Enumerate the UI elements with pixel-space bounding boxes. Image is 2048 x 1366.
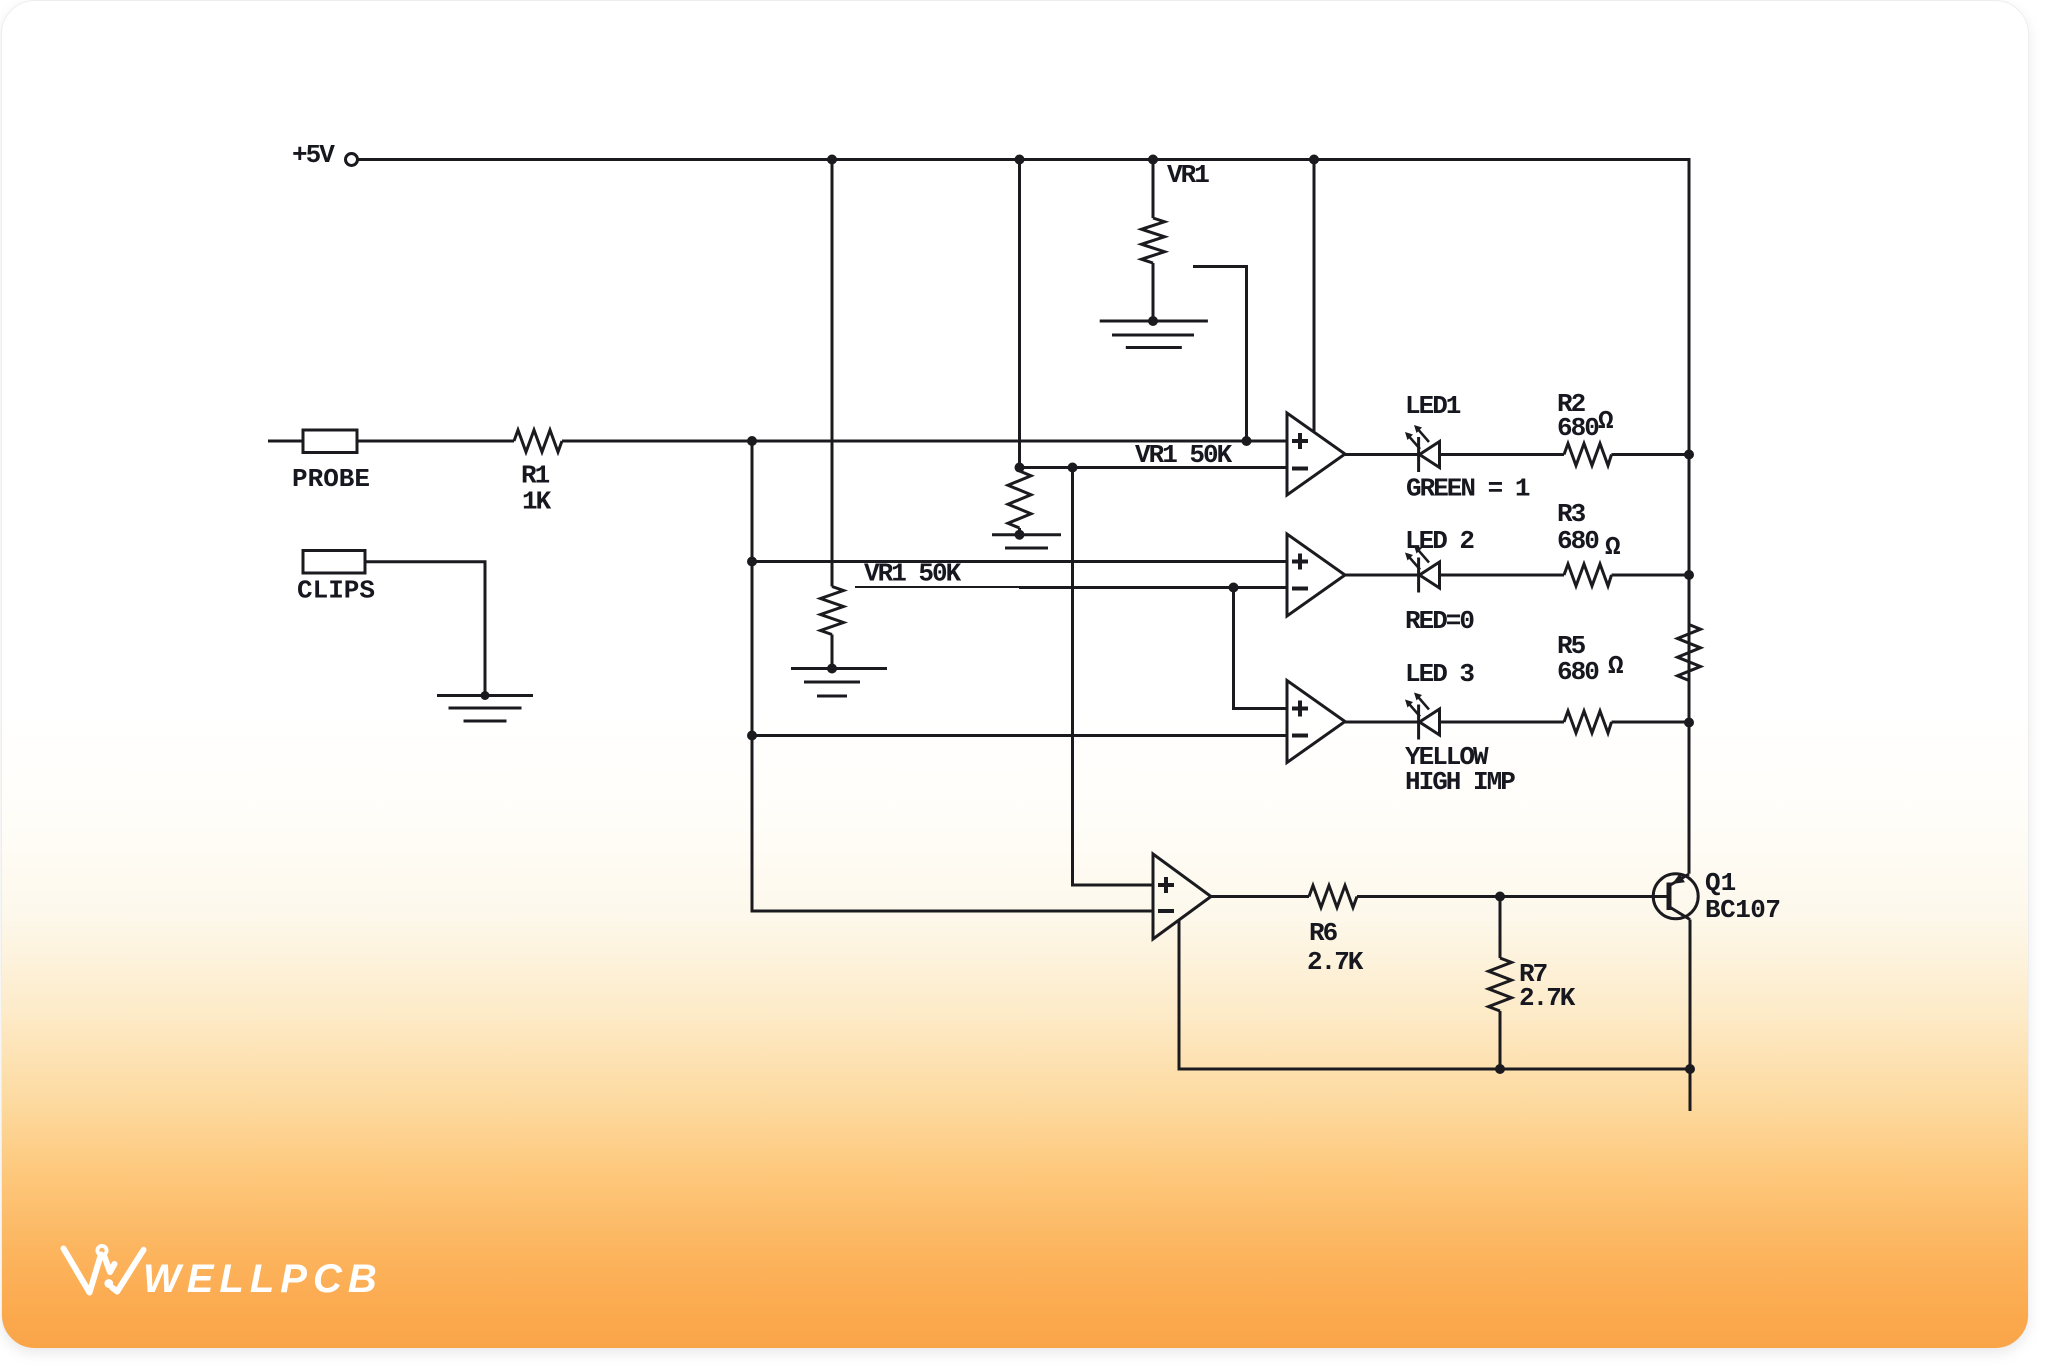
svg-text:Ω: Ω: [1605, 532, 1621, 562]
svg-text:1K: 1K: [522, 487, 552, 517]
svg-text:VR1: VR1: [1167, 160, 1209, 190]
svg-text:680: 680: [1557, 413, 1599, 443]
svg-text:+5V: +5V: [292, 140, 335, 170]
svg-text:R6: R6: [1309, 918, 1338, 948]
svg-text:PROBE: PROBE: [292, 464, 370, 494]
svg-text:680: 680: [1557, 657, 1599, 687]
svg-text:WELLPCB: WELLPCB: [143, 1257, 383, 1301]
svg-text:2.7K: 2.7K: [1307, 947, 1364, 977]
svg-text:R3: R3: [1557, 499, 1586, 529]
svg-text:2.7K: 2.7K: [1519, 983, 1576, 1013]
svg-text:VR1 50K: VR1 50K: [1135, 440, 1233, 470]
svg-text:Ω: Ω: [1598, 406, 1614, 436]
svg-text:VR1 50K: VR1 50K: [864, 559, 962, 589]
svg-text:CLIPS: CLIPS: [297, 576, 375, 606]
svg-text:GREEN = 1: GREEN = 1: [1406, 474, 1530, 504]
svg-text:LED 3: LED 3: [1405, 659, 1474, 689]
svg-text:BC107: BC107: [1705, 895, 1781, 925]
svg-text:HIGH IMP: HIGH IMP: [1405, 767, 1515, 797]
svg-text:LED 2: LED 2: [1405, 526, 1474, 556]
svg-text:Ω: Ω: [1608, 651, 1624, 681]
svg-text:RED=0: RED=0: [1405, 606, 1474, 636]
svg-text:Q1: Q1: [1705, 868, 1736, 898]
svg-text:LED1: LED1: [1405, 391, 1461, 421]
svg-text:680: 680: [1557, 526, 1599, 556]
